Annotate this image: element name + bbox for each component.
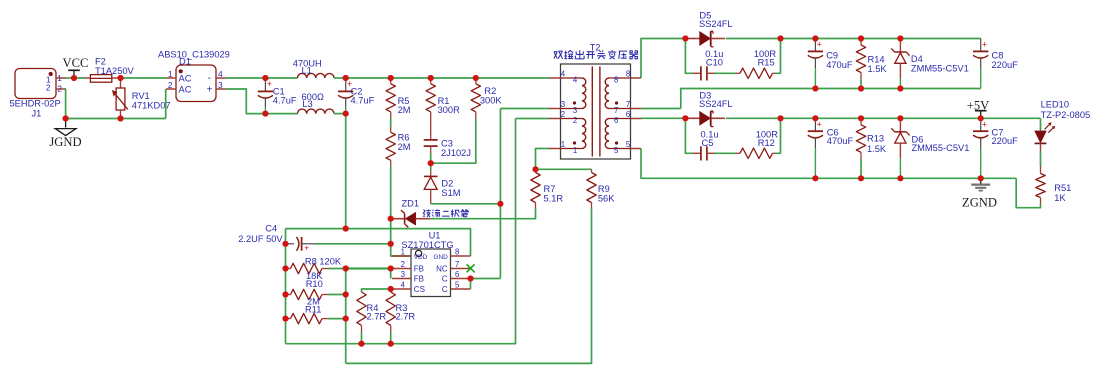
label C8 220uF [992, 51, 1019, 71]
wire J1.2 down [65, 89, 67, 119]
junction D3 anode [682, 115, 688, 121]
diode D5 [685, 31, 725, 47]
wire T2.3 stub wire [500, 108, 549, 110]
wire FB column [345, 269, 347, 364]
junction U1.4 [388, 286, 394, 292]
wire C5 to R12 [715, 152, 736, 154]
svg-text:TZ-P2-0805: TZ-P2-0805 [1041, 110, 1091, 120]
svg-text:+: + [817, 120, 822, 130]
svg-text:1.5K: 1.5K [867, 144, 887, 154]
label 0.1u C5 [701, 129, 719, 148]
wire U1.6 to switch column [471, 278, 501, 280]
resistor R10 [286, 289, 346, 299]
label 0.1u C10 [705, 49, 723, 67]
label C7 220uF [992, 128, 1019, 146]
svg-text:4: 4 [401, 281, 406, 290]
svg-text:R14: R14 [868, 54, 885, 64]
svg-text:2.2UF 50V: 2.2UF 50V [238, 234, 283, 244]
junction R4 bottom [358, 341, 364, 347]
svg-text:U1: U1 [429, 230, 441, 240]
wire D1.3 to C1 bottom [226, 89, 265, 114]
svg-text:3: 3 [561, 100, 565, 109]
capacitor C8 [973, 39, 988, 89]
resistor R2 [471, 78, 480, 119]
svg-text:FB: FB [414, 265, 424, 274]
label 5EHDR-02P J1 [10, 98, 61, 118]
U1 pin3 FB [392, 270, 424, 284]
wire J1.1 to VCC node [66, 77, 74, 79]
resistor R11 [286, 313, 346, 323]
svg-text:ABS10_C139029: ABS10_C139029 [158, 50, 230, 60]
fuse F2 [84, 75, 121, 83]
svg-text:ZD1: ZD1 [402, 199, 420, 209]
svg-text:C8: C8 [992, 51, 1004, 61]
label 600ohm L3 [302, 92, 325, 109]
wire left gnd column [285, 229, 287, 344]
svg-text:2: 2 [561, 110, 565, 119]
wire F2 to D1 [121, 77, 167, 79]
label ZD1 chinese (freewheeling diode) [423, 209, 469, 217]
junction R11 right [343, 316, 349, 322]
wire C2 bottom down to gnd line [345, 114, 347, 229]
wire bottom-left JGND net [66, 118, 166, 120]
svg-text:4: 4 [218, 69, 223, 79]
wire FB to U1.2 [346, 267, 391, 269]
junction C6 bottom [812, 175, 818, 181]
label R8 120K [305, 257, 342, 267]
label R7 5.1R [544, 184, 564, 203]
svg-text:300R: 300R [438, 105, 461, 115]
resistor R14 [856, 39, 865, 89]
svg-text:300K: 300K [480, 95, 503, 105]
resistor R4 [357, 292, 366, 344]
inductor L1 [298, 73, 335, 78]
connector J1 [15, 69, 66, 99]
junction switch node [497, 201, 503, 207]
resistor R13 [856, 118, 865, 178]
svg-text:220uF: 220uF [992, 60, 1019, 70]
snubber2 wire right [776, 118, 781, 153]
transformer T2 body [561, 64, 631, 159]
label U1 SZ1701CTG [401, 230, 453, 250]
wire U1.2 to U1.3 [390, 269, 392, 279]
zener D4 [891, 39, 909, 89]
capacitor C4 [286, 237, 316, 253]
svg-text:T1A250V: T1A250V [95, 66, 135, 76]
svg-text:+: + [982, 40, 987, 50]
svg-text:5: 5 [626, 140, 631, 149]
svg-text:470uF: 470uF [827, 136, 854, 146]
wire main rail C2 to T2.4 [346, 77, 549, 79]
ground ZGND [962, 178, 997, 209]
svg-text:3: 3 [573, 106, 577, 115]
junction R14 bottom [858, 85, 864, 91]
varistor RV1 [112, 78, 128, 119]
label C2 4.7uF [351, 86, 375, 105]
junction R11 left [282, 316, 288, 322]
svg-text:2J102J: 2J102J [441, 148, 471, 158]
resistor R7 [531, 169, 540, 208]
junction R15 riser [777, 35, 783, 41]
svg-text:ZGND: ZGND [962, 196, 997, 210]
junction D5 anode [682, 35, 688, 41]
wire R51 to rail2 bottom [1016, 178, 1040, 207]
capacitor C5 [693, 146, 715, 160]
svg-text:2: 2 [573, 116, 577, 125]
wire C10 to R15 [715, 72, 736, 74]
junction R12 riser [777, 115, 783, 121]
svg-text:C5: C5 [702, 138, 714, 148]
wire L1 to C2 [334, 77, 346, 79]
svg-text:+: + [817, 40, 822, 50]
svg-text:3: 3 [401, 270, 405, 279]
junction R14 top [858, 35, 864, 41]
junction RV1 bottom [117, 115, 123, 121]
svg-text:5: 5 [455, 281, 460, 290]
wire T2.8 up to D5 [641, 39, 685, 79]
svg-text:2M: 2M [398, 142, 411, 152]
label R1 300R [438, 96, 461, 115]
svg-text:2: 2 [168, 80, 173, 90]
svg-text:1: 1 [57, 73, 62, 83]
junction R10 right [343, 291, 349, 297]
svg-text:S1M: S1M [441, 188, 460, 198]
power port VCC [63, 56, 89, 78]
svg-text:D4: D4 [911, 54, 923, 64]
capacitor C3 [424, 112, 438, 153]
diode D2 [424, 171, 438, 204]
junction C9 bottom [812, 85, 818, 91]
svg-text:6: 6 [626, 110, 630, 119]
junction U1.2 [388, 265, 394, 271]
snubber2 wire left [685, 118, 692, 153]
label D5 SS24FL [699, 11, 733, 30]
junction D6 bottom [897, 175, 903, 181]
resistor R3 [386, 289, 395, 344]
capacitor C1 [258, 78, 273, 114]
svg-text:+: + [267, 79, 272, 89]
svg-text:J1: J1 [32, 109, 42, 119]
svg-text:4: 4 [573, 75, 578, 84]
svg-text:R11: R11 [305, 304, 321, 314]
junction R13 bottom [858, 175, 864, 181]
label D4 ZMM55-C5V1 [911, 54, 969, 74]
wire rail2 bottom [641, 149, 1016, 179]
junction C2 bottom [343, 111, 349, 117]
svg-text:T2: T2 [590, 43, 601, 53]
label C1 4.7uF [273, 86, 297, 105]
capacitor C2 [338, 78, 353, 114]
junction C7 top [978, 115, 984, 121]
junction C4 left [282, 241, 288, 247]
U1 pin7 NC [436, 260, 470, 274]
svg-text:3: 3 [218, 80, 223, 90]
svg-text:C4: C4 [265, 224, 277, 234]
svg-text:AC: AC [179, 74, 192, 84]
svg-text:ZMM55-C5V1: ZMM55-C5V1 [911, 64, 969, 74]
svg-text:SZ1701CTG: SZ1701CTG [401, 240, 453, 250]
label R5 2M [398, 96, 411, 115]
svg-text:5EHDR-02P: 5EHDR-02P [10, 98, 61, 108]
T2 pin numbers [561, 69, 631, 155]
wire up to D1.2 [165, 89, 167, 119]
svg-text:+: + [982, 120, 987, 130]
svg-text:220uF: 220uF [992, 136, 1019, 146]
zener D6 [891, 118, 909, 178]
op-amp U1 body [411, 249, 451, 297]
label 100R R15 [754, 49, 777, 67]
svg-text:R15: R15 [758, 58, 775, 68]
wire T2.6 to D3 [641, 117, 685, 119]
snubber1 wire left [685, 39, 692, 74]
wire R2 bottom to C3-D2 node [431, 119, 476, 163]
wire VCC to F2 [74, 77, 84, 79]
wire C1b to L3 [265, 113, 297, 115]
label R14 1.5K [868, 54, 888, 74]
resistor R9 [587, 169, 596, 208]
wire D3 to rail2 [726, 117, 781, 119]
svg-text:2M: 2M [398, 105, 411, 115]
junction F2-RV1 [117, 75, 123, 81]
bridge rectifier D1 [166, 65, 226, 102]
wire switch column [499, 109, 501, 279]
capacitor C6 [808, 118, 823, 178]
junction R13 top [858, 115, 864, 121]
svg-text:1K: 1K [1054, 193, 1066, 203]
capacitor C9 [808, 39, 823, 89]
junction R7 top [532, 166, 538, 172]
junction C2gnd [343, 226, 349, 232]
svg-text:JGND: JGND [49, 135, 81, 149]
wire rail2 to LED [1040, 118, 1042, 131]
svg-text:AC: AC [179, 84, 192, 94]
label ABS10_C139029 D1 [158, 50, 230, 67]
svg-text:FB: FB [414, 275, 424, 284]
svg-text:2: 2 [401, 260, 405, 269]
wire T2.1 to R7 [536, 149, 550, 170]
wire C4 to VDD column [315, 243, 391, 245]
label 18K R10 [306, 271, 324, 289]
wire VDD column to U1.1 [391, 219, 411, 256]
svg-text:+: + [304, 243, 309, 253]
svg-text:1: 1 [401, 248, 405, 257]
svg-text:6: 6 [455, 270, 459, 279]
junction C3-D2-R2 [428, 160, 434, 166]
svg-text:1: 1 [561, 140, 565, 149]
wire LED to R51 [1040, 151, 1042, 166]
resistor R15 [736, 68, 776, 78]
junction ZD1 anode [388, 216, 394, 222]
svg-text:C: C [442, 285, 448, 294]
label T2 chinese (dual-output switching transformer) [554, 50, 639, 59]
label 2M R11 [305, 297, 321, 315]
label C4 2.2UF 50V [238, 224, 283, 244]
label R51 1K [1054, 183, 1071, 203]
svg-text:R13: R13 [867, 134, 884, 144]
svg-text:5: 5 [614, 146, 619, 155]
label R3 2.7R [396, 303, 416, 322]
U1 pin4 CS [392, 281, 425, 295]
svg-text:4.7uF: 4.7uF [351, 96, 375, 106]
svg-text:7: 7 [614, 106, 618, 115]
wire gnd line to U1.8 [286, 229, 471, 256]
wire R6 down to ZD1 node [390, 167, 392, 219]
svg-text:1: 1 [573, 146, 577, 155]
wire D5 to rail1 [726, 38, 781, 40]
label D3 SS24FL [699, 90, 733, 109]
svg-text:2.7R: 2.7R [367, 312, 387, 322]
junction C6 top [812, 115, 818, 121]
svg-text:C: C [442, 275, 448, 284]
svg-text:-: - [208, 73, 211, 84]
junction C9 top [812, 35, 818, 41]
label R13 1.5K [867, 134, 887, 155]
svg-text:SS24FL: SS24FL [699, 99, 733, 109]
junction R8 right [343, 265, 349, 271]
svg-text:1: 1 [168, 69, 173, 79]
diode D3 [685, 111, 725, 127]
wire ZD1 to R7 bottom [430, 209, 536, 219]
U1 pin2 FB [392, 260, 424, 274]
wire R7top to R9 [536, 168, 592, 170]
wire R5-R6 [390, 118, 392, 127]
resistor R8 [286, 263, 346, 273]
zener diode ZD1 [391, 210, 430, 227]
label LED10 TZ-P2-0805 [1041, 99, 1091, 120]
capacitor C10 [693, 66, 715, 80]
wire rail1 top [781, 38, 981, 40]
junction C1 bottom [262, 111, 268, 117]
power port +5V [967, 99, 990, 119]
resistor R51 [1036, 166, 1045, 205]
wire T2.2 riser [516, 118, 550, 120]
wire C1 to L1 [265, 77, 297, 79]
LED LED10 [1035, 122, 1056, 151]
snubber1 wire right [776, 39, 781, 74]
svg-text:+: + [207, 84, 213, 95]
junction R8 left [282, 265, 288, 271]
junction VCC [71, 75, 77, 81]
junction U1.6 [467, 275, 473, 281]
junction D4 bottom [897, 85, 903, 91]
junction R10 left [282, 291, 288, 297]
wire U1.5 tie [470, 279, 472, 290]
svg-text:VDD: VDD [414, 254, 428, 261]
junction R2 top [473, 75, 479, 81]
wire L3 to C2 bottom [334, 113, 346, 115]
junction C7 bottom [978, 175, 984, 181]
svg-text:D1: D1 [179, 57, 191, 67]
label D2 S1M [441, 178, 460, 197]
junction C2 top [343, 75, 349, 81]
U1 pin5 C [442, 281, 471, 295]
wire rail2 top [781, 117, 1041, 119]
capacitor C7 [973, 118, 988, 178]
label RV1 471KD07 [132, 91, 171, 110]
wire FB column to R9 [346, 209, 592, 364]
svg-text:ZMM55-C5V1: ZMM55-C5V1 [912, 143, 970, 153]
svg-text:2: 2 [46, 82, 51, 92]
svg-text:4: 4 [561, 69, 566, 78]
label C6 470uF [827, 128, 854, 146]
svg-text:C9: C9 [826, 51, 838, 61]
resistor R1 [426, 78, 435, 112]
junction JGND tap [63, 115, 69, 121]
svg-text:R12: R12 [758, 138, 775, 148]
wire T2.7 stub wire [641, 108, 681, 110]
svg-text:7: 7 [455, 260, 459, 269]
U1 pin8 GND [433, 248, 470, 262]
junction R1 top [428, 75, 434, 81]
junction C1 top [262, 75, 268, 81]
inductor L3 [298, 109, 335, 114]
svg-text:L1: L1 [302, 65, 312, 75]
svg-text:470uF: 470uF [826, 60, 853, 70]
label 100R R12 [756, 129, 779, 148]
junction R5 top [388, 75, 394, 81]
label T2 [590, 43, 601, 53]
wire D1.4 to C1 [226, 77, 265, 79]
wire C3 to D2 [430, 153, 432, 171]
label ZD1 [402, 199, 420, 209]
wire R4 top [362, 289, 391, 292]
ground JGND [49, 119, 81, 150]
svg-text:GND: GND [433, 254, 448, 261]
svg-text:471KD07: 471KD07 [132, 101, 171, 111]
svg-text:2: 2 [57, 83, 62, 93]
svg-text:2.7R: 2.7R [396, 312, 416, 322]
svg-text:R10: R10 [306, 279, 323, 289]
label C3 2J102J [441, 138, 471, 157]
wire D2 to switch-node column [431, 203, 501, 205]
svg-text:NC: NC [436, 265, 448, 274]
junction VDD node [388, 241, 394, 247]
junction D4 top [897, 35, 903, 41]
wire rail1 bottom [681, 89, 981, 109]
svg-text:8: 8 [614, 75, 618, 84]
resistor R6 [386, 127, 395, 167]
label R9 56K [598, 184, 615, 203]
resistor R5 [386, 78, 395, 118]
U1 pin1 VDD [392, 248, 428, 262]
svg-text:1.5K: 1.5K [868, 64, 888, 74]
resistor R12 [736, 148, 776, 158]
svg-text:+5V: +5V [967, 99, 990, 113]
svg-text:LED10: LED10 [1041, 99, 1069, 109]
svg-text:VCC: VCC [63, 56, 89, 70]
svg-text:CS: CS [414, 285, 425, 294]
wire bottom gnd rail [286, 119, 516, 344]
label 470UH L1 [293, 59, 322, 76]
label C9 470uF [826, 51, 853, 71]
svg-text:SS24FL: SS24FL [699, 19, 733, 29]
label R4 2.7R [367, 303, 387, 322]
svg-text:8: 8 [455, 248, 459, 257]
U1 pin6 C [442, 270, 471, 284]
junction D6 top [897, 115, 903, 121]
T2 pin stubs [549, 78, 641, 149]
junction R3 bottom [388, 341, 394, 347]
svg-text:7: 7 [626, 100, 630, 109]
svg-text:C10: C10 [706, 58, 723, 68]
svg-text:56K: 56K [598, 193, 615, 203]
label D6 ZMM55-C5V1 [912, 134, 970, 153]
svg-text:R51: R51 [1054, 183, 1071, 193]
label R6 2M [398, 133, 411, 152]
label F2 T1A250V [95, 57, 135, 76]
label R2 300K [480, 86, 503, 105]
svg-text:R8 120K: R8 120K [305, 257, 342, 267]
